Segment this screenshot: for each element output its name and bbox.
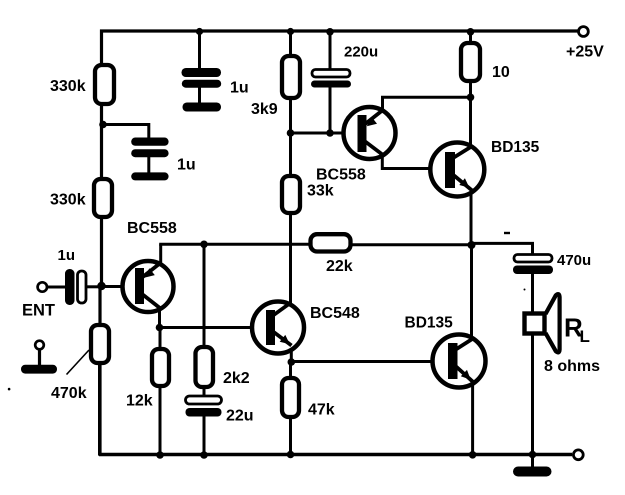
speck artifact near 470u [504,232,510,234]
svg-text:330k: 330k [50,78,86,95]
svg-text:ENT: ENT [22,302,55,320]
svg-text:BC558: BC558 [316,167,366,184]
node dot C3 bottom [326,129,334,137]
wire ENT to C4 [47,286,65,289]
terminal ENT input [38,282,47,291]
svg-text:8 ohms: 8 ohms [544,358,600,375]
resistor R6 47k [282,378,299,417]
wire 470k top [99,287,102,326]
node dot y244 column right [468,241,476,249]
resistor R10 10 [461,43,480,81]
wire Q4 emitter down [470,192,473,246]
transistor Q4 BD135 upper NPN [430,143,484,197]
resistor R1 330k [95,65,114,104]
wire Q1 emitter up [159,244,162,263]
wire speaker to rail [531,332,534,456]
node dot Q1 collector [156,324,164,332]
wire node row y133 [289,132,358,135]
wire Q3 collector to Q4 base [382,153,445,169]
svg-text:BD135: BD135 [405,315,454,332]
capacitor C1 1u [182,68,222,112]
svg-text:2k2: 2k2 [223,370,250,387]
svg-text:BC558: BC558 [127,220,177,237]
wire C3 bottom stem [329,87,332,135]
wire C1 mid stem [198,88,201,104]
svg-text:22k: 22k [326,258,353,275]
wire left rail [100,30,103,287]
wire C2 mid stem [147,157,150,173]
svg-text:330k: 330k [50,192,86,209]
wire 3k9 bottom to node [289,98,292,176]
wire top rail [100,29,578,32]
svg-text:1u: 1u [230,80,249,97]
svg-text:+25V: +25V [566,44,604,61]
wire 470k bottom [98,363,101,455]
svg-text:470k: 470k [51,385,87,402]
wire Q1 base [102,285,136,288]
wire C4 to node [86,285,102,288]
resistor R8 33k [282,176,300,213]
svg-text:BC548: BC548 [310,305,360,322]
svg-text:BD135: BD135 [491,139,540,156]
svg-text:10: 10 [492,64,510,81]
svg-text:47k: 47k [308,402,335,419]
svg-text:1u: 1u [58,247,76,264]
node dot 3k9-33k [287,129,295,137]
transistor Q1 BC558 input PNP [123,261,174,312]
wire 2k2 column [203,244,206,347]
wire 33k down column [289,213,292,305]
capacitor C2 1u [131,138,168,181]
node dot rail Q5 emitter [469,451,477,459]
wire Q5 base row [291,360,448,363]
wire 22k right [351,243,472,246]
ground input side [21,341,57,374]
node dot rail 12k [156,451,164,459]
svg-text:L: L [580,327,590,346]
terminal output [573,450,583,460]
resistor R9 22k horizontal [311,234,351,251]
pointer line to 470k [67,350,90,375]
wire Q1 collector down [158,307,161,329]
speck artifact left margin [8,388,11,391]
svg-text:33k: 33k [307,183,334,200]
transistor Q2 BC548 NPN [252,302,304,354]
wire 2k2 to C5 [203,388,206,397]
resistor R7 3k9 [282,56,300,98]
wire Q3 emitter to column [383,97,471,110]
svg-text:1u: 1u [177,157,196,174]
wire 10 top [469,31,472,43]
node dot top rail 10 [467,28,475,36]
svg-text:22u: 22u [226,408,254,425]
wire ground2 stem [531,455,534,467]
node dot Q2 emitter [288,358,296,366]
resistor R4 12k [152,349,169,386]
transistor Q5 BD135 lower NPN [433,335,486,388]
wire C3 top stem [329,31,332,70]
wire Q5 emitter down [471,381,474,455]
speck artifact above speaker [524,289,526,291]
svg-text:12k: 12k [126,393,153,410]
node dot rail speaker [529,451,537,459]
node dot top rail C3 [326,28,334,36]
speaker RL [525,294,560,352]
wire C1 top stem [198,31,201,69]
capacitor C6 470u polarized [513,255,553,275]
node dot y244 2k2 [200,241,208,249]
wire node to C2 [103,125,149,139]
ground bottom right [513,467,552,477]
resistor R3 470k [91,325,109,363]
wire y244 row [159,243,311,246]
wire Q2 base row y327 [160,326,267,329]
wire 12k bottom [159,386,162,456]
wire Q5 collector column [470,245,473,340]
wire 47k bottom [289,417,292,455]
wire Q2 emitter down [290,344,293,362]
node dot Q3 emitter column [467,94,475,102]
capacitor C4 1u input coupling [65,269,86,305]
node dot top rail C1 [196,28,203,35]
node dot rail 47k [287,451,295,459]
wire 12k top [159,328,162,350]
node dot rail 22u [200,451,208,459]
wire 10 bottom [469,81,472,148]
node dot input [97,282,105,290]
svg-text:3k9: 3k9 [251,101,278,118]
wire bottom rail [99,453,572,456]
node dot left rail C2 branch [99,121,107,129]
wire 47k top [289,362,292,378]
svg-text:220u: 220u [344,44,378,61]
terminal +25V [579,27,589,37]
node dot top rail 3k9 [287,28,294,35]
resistor R5 2k2 [196,347,214,387]
resistor R2 330k [94,179,112,217]
svg-text:470u: 470u [557,252,591,269]
transistor Q3 BC558 PNP [344,107,396,159]
wire 3k9 top [289,31,292,56]
wire left rail lower [98,286,101,456]
wire 22k to C6 [471,243,533,254]
capacitor C3 220u polarized [311,70,351,88]
wire C5 bottom [203,417,206,456]
wire C6 to speaker [531,274,534,315]
capacitor C5 22u polarized [186,396,222,417]
